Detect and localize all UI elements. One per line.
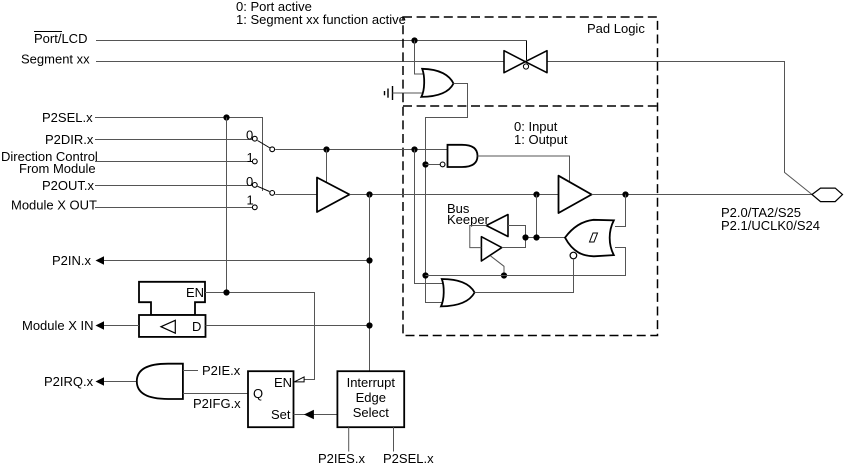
wire U8 output to schmitt bubble: [475, 260, 574, 293]
svg-text:Set: Set: [271, 407, 291, 422]
svg-text:P2SEL.x: P2SEL.x: [383, 451, 434, 464]
svg-text:Module X OUT: Module X OUT: [11, 198, 97, 213]
wire Set input with arrow: [294, 414, 338, 416]
svg-text:Port/LCD: Port/LCD: [34, 31, 87, 46]
svg-text:D: D: [192, 319, 201, 334]
wire to AND inverted input: [426, 164, 441, 166]
wire down to keeper line: [536, 195, 538, 238]
latch D block: [139, 315, 206, 337]
and-gate U9 interrupt (points left): [137, 364, 183, 399]
wire Port/LCD control net: [96, 41, 527, 58]
svg-text:P2OUT.x: P2OUT.x: [42, 178, 95, 193]
wire P2IFG.x: [183, 393, 248, 395]
svg-text:Keeper: Keeper: [447, 212, 490, 227]
wire Segment xx to transmission gate: [96, 61, 504, 63]
wire P2SEL down to EN net: [226, 118, 228, 293]
svg-text:1: Output: 1: Output: [514, 132, 568, 147]
wire D input: [206, 325, 370, 327]
node: P2SEL branch: [223, 114, 229, 120]
svg-text:0: 0: [246, 128, 253, 143]
or-gate U8 (input enable): [441, 279, 475, 306]
wire P2DIR.x: [95, 139, 252, 141]
label Bus Keeper: [447, 201, 490, 227]
arrow Set: [304, 410, 314, 419]
wire direction to bottom OR input: [415, 150, 443, 284]
svg-text:P2IRQ.x: P2IRQ.x: [44, 374, 94, 389]
wire P2IN.x: [104, 260, 370, 262]
node: P2IN tap: [366, 191, 372, 197]
node: keeper line to main: [533, 234, 539, 240]
svg-text:Select: Select: [353, 405, 390, 420]
arrow Module X IN: [96, 321, 105, 330]
buffer U6 keeper output (points right): [481, 237, 501, 261]
node: D input junction: [366, 322, 372, 328]
latch EN block (Module X IN enable): [139, 282, 205, 315]
clock wedge on EN: [294, 377, 304, 382]
svg-text:P2DIR.x: P2DIR.x: [45, 132, 94, 147]
bubble U3 inverted input: [440, 162, 445, 167]
wire direction control from module: [95, 161, 252, 163]
wire mux M2 to buffer: [275, 194, 317, 196]
mux M2 labels 0/1: [246, 174, 254, 208]
schmitt trigger U7 (points left): [565, 220, 614, 256]
flip-flop box Q/EN/Set: [248, 371, 294, 427]
node: P2IN junction: [366, 257, 372, 263]
wire keeper feedback loop: [470, 226, 487, 248]
wire driver output to pad: [592, 194, 812, 196]
wire vertical tap down to interrupt select: [369, 195, 371, 372]
driver buffer U4: [559, 176, 592, 213]
arrow P2IRQ.x: [96, 377, 105, 386]
mux M1 labels 0/1: [246, 128, 254, 166]
label Port/LCD (with overline on Port): [34, 31, 87, 46]
svg-text:P2IE.x: P2IE.x: [202, 363, 241, 378]
node: buffer enable branch: [323, 146, 329, 152]
svg-text:P2IN.x: P2IN.x: [52, 253, 92, 268]
mux M2 switch: [252, 183, 274, 210]
wire P2SEL.x select net: [95, 118, 263, 192]
svg-text:0: 0: [246, 174, 253, 189]
wire pad line down to schmitt input: [615, 195, 626, 227]
label Interrupt Edge Select: [347, 375, 396, 420]
svg-text:P2IES.x: P2IES.x: [318, 451, 365, 464]
svg-text:1: Segment xx function active: 1: Segment xx function active: [236, 12, 406, 27]
wire buffer enable: [326, 150, 328, 184]
node: keeper enable junction: [501, 272, 507, 278]
svg-text:1: 1: [247, 193, 254, 208]
wire P2SEL.x bottom: [393, 427, 395, 451]
node: direction to OR branch: [411, 146, 417, 152]
svg-text:P2IFG.x: P2IFG.x: [193, 396, 241, 411]
ground: [385, 86, 425, 100]
node: AND bubble branch: [422, 161, 428, 167]
svg-text:Segment xx: Segment xx: [21, 52, 90, 67]
wire P2IRQ.x: [104, 381, 137, 383]
or-gate U2 (segment enable): [421, 69, 453, 97]
svg-text:P2.1/UCLK0/S24: P2.1/UCLK0/S24: [721, 218, 820, 233]
clock triangle in D block: [161, 320, 175, 333]
svg-text:From Module: From Module: [19, 161, 96, 176]
node: bus keeper vertical: [533, 191, 539, 197]
legend: input/output note: [514, 119, 568, 147]
wire Port/LCD to OR gate input: [415, 41, 425, 75]
svg-text:Module X IN: Module X IN: [22, 318, 94, 333]
node: EN net junction: [223, 289, 229, 295]
transmission gate T1: [504, 41, 547, 73]
bubble U7 enable: [570, 252, 577, 259]
wire direction net to AND gate: [275, 149, 447, 151]
wire U2 output to vertical feed: [426, 84, 468, 303]
arrow P2IN.x: [96, 256, 105, 265]
svg-text:Pad Logic: Pad Logic: [587, 21, 645, 36]
wire keeper enable net: [426, 248, 626, 276]
svg-text:Edge: Edge: [356, 390, 386, 405]
buffer U1 output mux buffer: [317, 178, 350, 213]
node: keeper junction: [522, 234, 528, 240]
wire Module X OUT: [95, 207, 252, 209]
pad hexagon P2.x: [812, 188, 843, 202]
buffer U5 keeper input (points left): [486, 215, 508, 237]
svg-text:Interrupt: Interrupt: [347, 375, 396, 390]
and-gate U3 (output enable): [448, 145, 478, 167]
wire U3 output to driver enable: [478, 156, 570, 181]
mux M1 switch: [252, 136, 274, 164]
wire keeper to line: [502, 226, 565, 248]
wire transmission gate to pad: [547, 62, 812, 195]
wire main output net: [350, 194, 559, 196]
node: keeper enable line junction: [422, 272, 428, 278]
node: Port/LCD branch junction: [411, 37, 417, 43]
wire keeper enable diagonal: [490, 256, 504, 276]
svg-text:P2SEL.x: P2SEL.x: [42, 110, 93, 125]
wire P2OUT.x: [95, 185, 252, 187]
wire P2IE.x: [183, 370, 198, 372]
wire Module X IN: [104, 325, 139, 327]
svg-text:Q: Q: [253, 386, 263, 401]
box Interrupt Edge Select: [337, 371, 404, 427]
hysteresis symbol: [590, 233, 598, 242]
label pad names: [721, 205, 820, 233]
node: schmitt input tap: [622, 191, 628, 197]
wire EN net: [205, 293, 315, 380]
svg-text:EN: EN: [274, 375, 292, 390]
svg-text:EN: EN: [186, 285, 204, 300]
wire P2IES.x: [348, 427, 350, 451]
legend: port active note: [236, 0, 406, 27]
dashed box Pad Logic: [403, 17, 658, 336]
label Direction Control From Module: [1, 149, 98, 176]
